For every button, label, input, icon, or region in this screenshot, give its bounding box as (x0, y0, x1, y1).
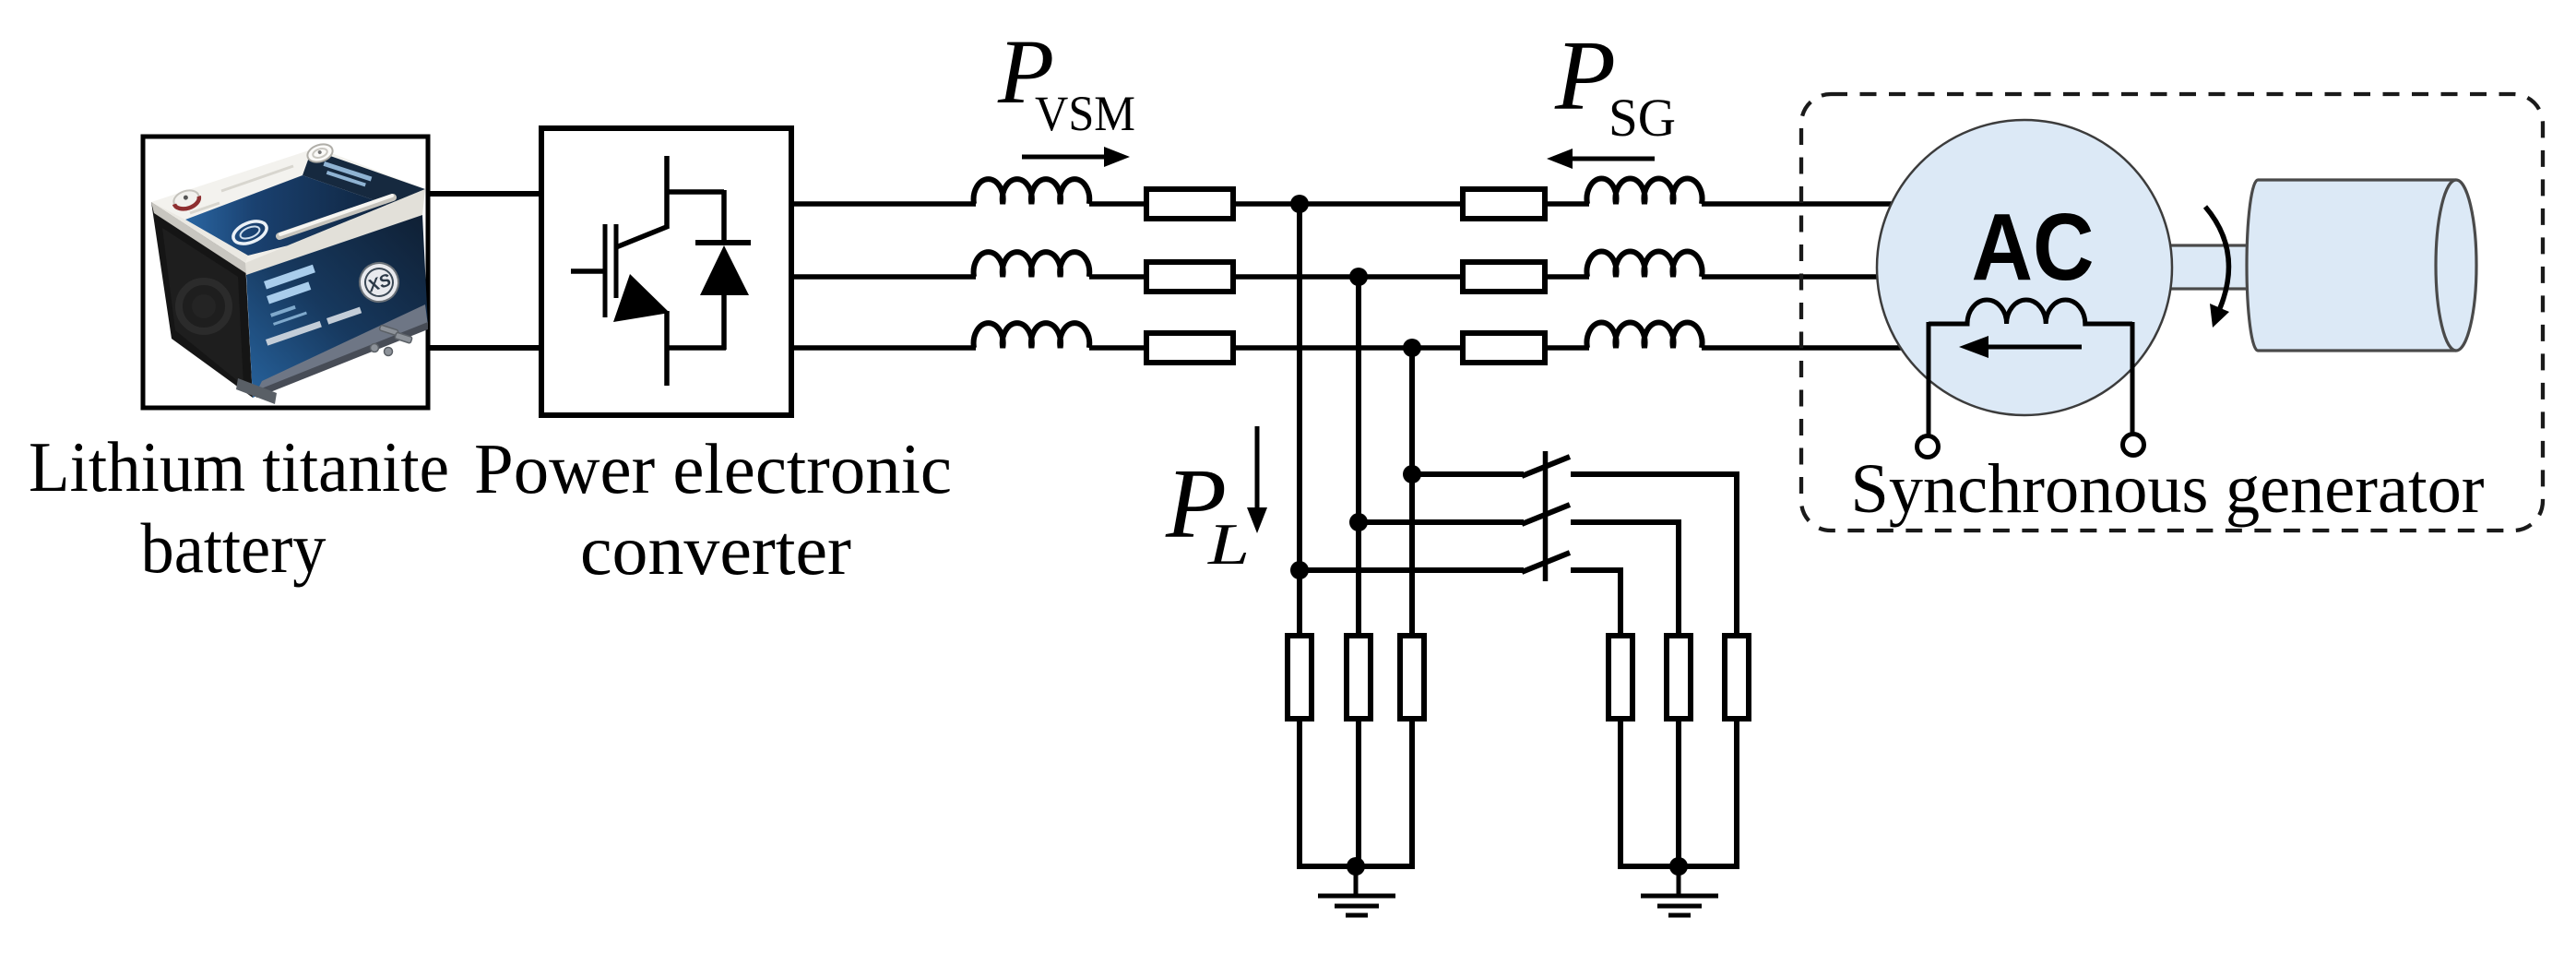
top slots (221, 166, 293, 191)
resistor R2b phase B (1463, 262, 1545, 292)
phase A wire converter to inductor (794, 201, 976, 207)
phase B wire resistor to SG resistor (1236, 274, 1463, 280)
ground 1 (1318, 866, 1395, 915)
load resistor RL4 (1609, 636, 1632, 719)
svg-text:AC: AC (1972, 194, 2095, 300)
turbine cylinder end cap (2436, 180, 2476, 351)
dropper wire phase C (1409, 348, 1415, 636)
battery top face (151, 148, 425, 263)
generator circle (1877, 120, 2172, 415)
svg-text:L: L (1207, 511, 1250, 577)
rotation arrowhead (2210, 304, 2229, 328)
inductor L1b phase B (974, 252, 1090, 277)
node tap A (1290, 561, 1309, 579)
resistor R1b phase B (1146, 262, 1233, 292)
load resistor RL3 (1400, 636, 1424, 719)
wire battery to converter (top) (429, 191, 539, 197)
inductor L1c phase C (974, 323, 1090, 348)
IGBT gate lead (571, 268, 603, 274)
phase C wire to generator (1702, 345, 1902, 351)
switch S2 blade (1522, 505, 1570, 524)
node bus 2 (1669, 857, 1688, 876)
phase A wire to generator (1702, 201, 1900, 207)
load bank 2 bus (1618, 864, 1739, 869)
diode D1 cathode bar (695, 240, 751, 245)
switch S3 blade (1522, 553, 1570, 572)
svg-text:battery: battery (141, 508, 326, 588)
turbine cylinder (2247, 180, 2456, 351)
node C on phase C (1403, 339, 1421, 357)
inductor L2c phase C (1587, 323, 1703, 348)
right strip of lid with handle (245, 189, 425, 263)
node bus 1 (1347, 857, 1365, 876)
node tap B (1349, 513, 1368, 531)
diode D1 cathode lead (721, 190, 727, 243)
three-phase lines: converter to generator (794, 179, 1902, 363)
IGBT collector diagonal (616, 226, 669, 247)
inductor L2a phase A (1587, 179, 1703, 204)
load bank 1 bus (1297, 864, 1415, 869)
svg-text:P: P (1554, 21, 1616, 131)
lithium battery photo (stylized) (151, 141, 428, 404)
diode D1 top wire (665, 189, 724, 195)
IGBT collector lead (664, 156, 670, 228)
phase C wire to resistor (1089, 345, 1146, 351)
oval logo on band (230, 217, 269, 248)
gray lower case on front (255, 304, 428, 396)
inductor L1a phase A (974, 179, 1090, 204)
switch S1 output wire (1571, 474, 1737, 636)
battery left textured face (151, 202, 253, 398)
phase C wire converter to inductor (794, 345, 976, 351)
node tap C (1403, 465, 1421, 483)
resistor R1a phase A (1146, 189, 1233, 219)
phase A wire to resistor (1089, 201, 1146, 207)
battery front navy label face (246, 215, 428, 398)
navy band along top-right edge (303, 149, 425, 214)
arrow P_L direction (1255, 426, 1260, 509)
phase B wire to resistor (1089, 274, 1146, 280)
load bank 2 bottom wires (1618, 719, 1623, 866)
rotation arrow (2205, 207, 2228, 308)
resistor R1c phase C (1146, 333, 1233, 363)
gray base pedestal (236, 378, 277, 404)
phase B wire to generator (1702, 274, 1882, 280)
blue label band on top face (185, 175, 414, 256)
switch S3 output wire (1571, 570, 1620, 636)
phase C wire resistor to SG resistor (1236, 345, 1463, 351)
field terminal right (2123, 435, 2144, 456)
battery photo frame (143, 137, 428, 408)
field terminal left (1917, 436, 1939, 458)
node A on phase A (1290, 195, 1309, 213)
load resistor RL6 (1725, 636, 1749, 719)
phase B wire to SG inductor (1545, 274, 1589, 280)
inductor L2b phase B (1587, 252, 1703, 277)
dropper wire phase A (1297, 204, 1302, 636)
ground 2 (1641, 866, 1718, 915)
generator shaft (2169, 245, 2252, 289)
field current arrow (1985, 345, 2082, 350)
IGBT body bar (614, 224, 619, 298)
phase A wire to SG inductor (1545, 201, 1589, 207)
screws and nuts (371, 325, 413, 356)
XS round badge (354, 257, 404, 307)
tap wire A to switch 3 (1300, 567, 1524, 573)
diode D1 bottom wire (665, 345, 726, 351)
arrow P_SG direction (1572, 157, 1655, 161)
svg-text:Synchronous generator: Synchronous generator (1851, 450, 2485, 528)
svg-text:Power electronic: Power electronic (474, 429, 952, 508)
IGBT Q1 inside converter (571, 156, 669, 386)
wire battery to converter (bottom) (429, 345, 539, 351)
node B on phase B (1349, 268, 1368, 286)
synchronous generator dashed box (1801, 94, 2543, 531)
phase B wire converter to inductor (794, 274, 976, 280)
terminal red ring (172, 187, 201, 212)
IGBT emitter arrow (613, 274, 670, 322)
field winding inductor (1929, 300, 2132, 324)
field winding left lead (1927, 322, 1931, 436)
tap wire C to switch 1 (1412, 471, 1524, 477)
load resistor RL1 (1288, 636, 1312, 719)
field winding right lead (2131, 322, 2135, 436)
arrow P_VSM direction (1022, 155, 1107, 160)
load bank 1 bottom wires (1297, 719, 1739, 866)
tap wire B to switch 2 (1359, 519, 1524, 525)
svg-text:SG: SG (1609, 88, 1676, 148)
terminal white ring (305, 141, 335, 165)
phase A wire resistor to SG resistor (1236, 201, 1463, 207)
front label texts (264, 265, 315, 326)
resistor R2a phase A (1463, 189, 1545, 219)
left inner strip of lid (151, 202, 248, 263)
svg-text:converter: converter (580, 510, 851, 590)
front lid lip (245, 189, 425, 275)
diode D1 triangle (700, 245, 749, 295)
IGBT gate bar (603, 224, 608, 317)
IGBT emitter lead (664, 311, 670, 386)
phase C wire to SG inductor (1545, 345, 1589, 351)
converter box U1 (541, 128, 791, 415)
svg-text:VSM: VSM (1035, 86, 1135, 141)
diode D1 anode lead (721, 293, 727, 350)
dropper wire phase B (1356, 277, 1361, 636)
switch gang tie bar (1543, 451, 1549, 581)
switch S2 output wire (1571, 522, 1679, 636)
resistor R2c phase C (1463, 333, 1545, 363)
load resistor RL2 (1347, 636, 1371, 719)
left lid side strip (151, 202, 247, 274)
load resistor RL5 (1667, 636, 1691, 719)
switch S1 blade (1522, 457, 1570, 476)
svg-text:Lithium titanite: Lithium titanite (29, 427, 449, 507)
